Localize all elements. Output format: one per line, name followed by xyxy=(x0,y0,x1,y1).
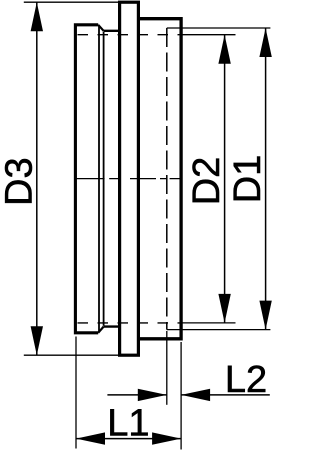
hidden thread root top xyxy=(78,34,182,36)
svg-text:L1: L1 xyxy=(107,402,149,444)
threaded section outline (left face + crest edges) xyxy=(75,25,98,333)
arrowhead L1 right xyxy=(152,432,181,444)
svg-text:D2: D2 xyxy=(186,157,228,206)
arrowhead L2 left xyxy=(138,389,167,401)
extension line top (D3) xyxy=(24,1,119,3)
arrowhead D2 bottom xyxy=(218,294,230,323)
hidden internal step xyxy=(166,28,168,330)
centerline xyxy=(76,178,182,180)
arrowhead D1 bottom xyxy=(259,301,271,330)
arrowhead D1 top xyxy=(259,28,271,57)
arrowhead D3 top xyxy=(31,2,43,31)
svg-text:D3: D3 xyxy=(0,157,41,206)
neck circle edge xyxy=(103,32,105,326)
dimension line L2 left tail xyxy=(107,394,166,396)
hidden thread root bottom xyxy=(78,322,182,324)
extension line right face (L1/L2) xyxy=(180,342,182,450)
arrowhead D2 top xyxy=(218,35,230,64)
extension line D1 bottom xyxy=(167,329,271,331)
dimension line D2 xyxy=(224,35,226,323)
chamfer top xyxy=(98,25,103,31)
extension line bottom (D3) xyxy=(24,354,119,356)
arrowhead L1 left xyxy=(76,432,105,444)
extension line L2 left (hidden step) xyxy=(166,331,168,405)
svg-text:D1: D1 xyxy=(227,155,269,204)
extension line D1 top xyxy=(167,27,271,29)
extension line D2 bottom xyxy=(181,322,236,324)
body outline xyxy=(140,19,181,339)
arrowhead D3 bottom xyxy=(31,326,43,355)
dimension line L2 right tail xyxy=(181,394,270,396)
thread runout circle edge xyxy=(98,26,100,332)
extension line L1 left xyxy=(75,337,77,449)
dimension line D3 xyxy=(36,2,38,355)
svg-text:L2: L2 xyxy=(225,359,267,401)
neck bottom edge xyxy=(104,325,120,327)
dimension line L1 xyxy=(76,438,181,440)
flange outline xyxy=(120,2,139,355)
extension line D2 top xyxy=(181,34,236,36)
neck top edge xyxy=(104,30,120,32)
arrowhead L2 right xyxy=(181,389,210,401)
chamfer bottom xyxy=(98,327,103,333)
dimension line D1 xyxy=(265,28,267,330)
